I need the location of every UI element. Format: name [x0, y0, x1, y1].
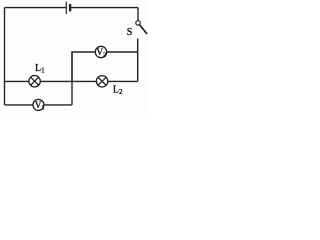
- voltmeter V2 circle: [95, 46, 106, 57]
- wire left rail: [4, 8, 6, 105]
- lamp L1 circle: [29, 76, 40, 87]
- wire top-right (battery to switch): [71, 7, 138, 9]
- lamp L2 circle: [96, 76, 107, 87]
- battery long plate: [65, 2, 67, 15]
- wire bottom: left rail to V1: [5, 104, 34, 106]
- wire lamp row: left rail to L1: [5, 80, 29, 82]
- switch S blade (open): [140, 25, 147, 34]
- lamp L2 cross: [98, 77, 106, 85]
- wire lamp row: L2 to right rail: [108, 80, 138, 82]
- lamp L1 cross: [31, 77, 39, 85]
- wire bottom: V1 to middle rail: [44, 104, 72, 106]
- wire right rail upper (to switch pivot): [137, 8, 139, 21]
- wire top-left (battery positive to left rail): [5, 7, 67, 9]
- wire lamp row: L1 to L2: [40, 80, 96, 82]
- svg-text:S: S: [127, 27, 133, 38]
- wire V2 branch left (middle rail corner to V2): [72, 52, 95, 81]
- wire right rail lower (switch contact down to L2 corner): [137, 39, 139, 82]
- battery short plate: [69, 4, 71, 11]
- wire V2 branch right (V2 to right rail): [107, 51, 138, 53]
- switch S pivot circle: [136, 21, 140, 25]
- voltmeter V1 circle: [33, 99, 44, 110]
- wire middle rail (junction down to bottom wire): [71, 52, 73, 105]
